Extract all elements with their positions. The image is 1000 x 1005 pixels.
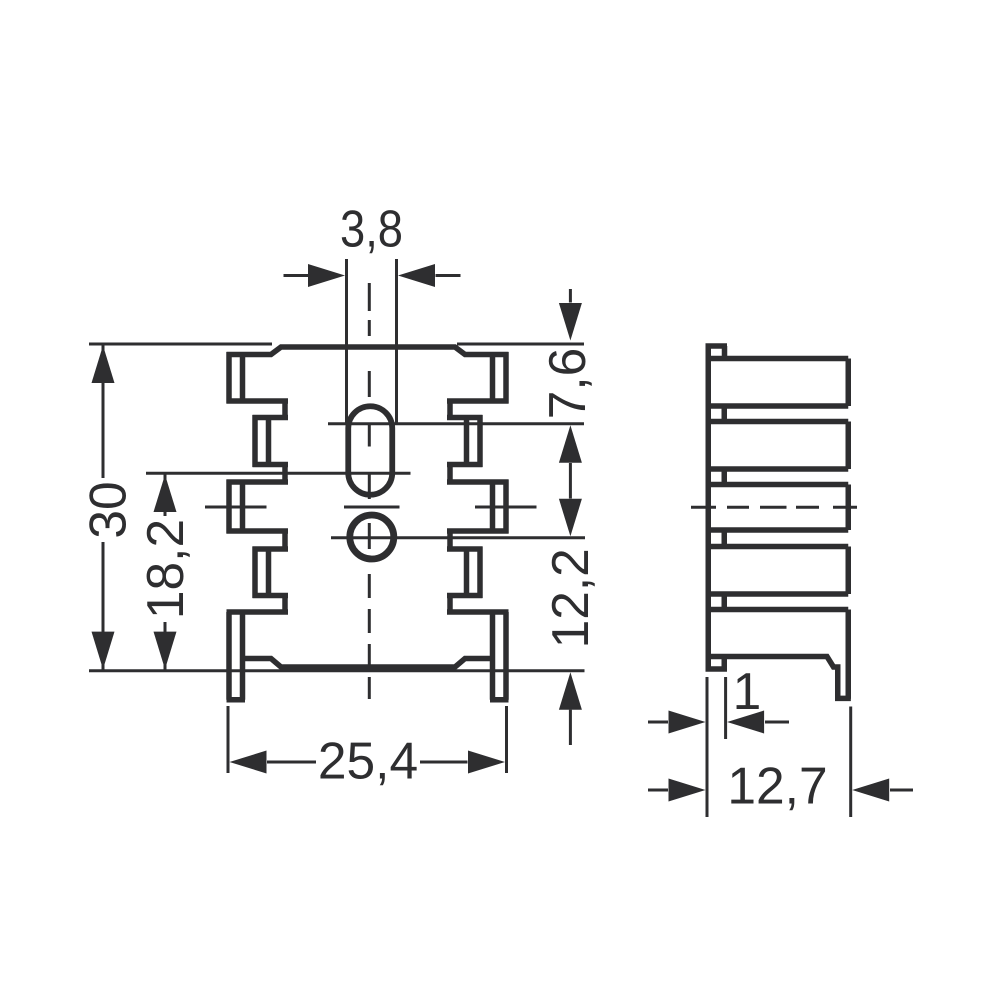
svg-text:12,7: 12,7 bbox=[727, 757, 827, 815]
svg-text:1: 1 bbox=[733, 662, 762, 720]
svg-text:3,8: 3,8 bbox=[340, 200, 403, 258]
svg-text:30: 30 bbox=[79, 481, 137, 538]
svg-text:25,4: 25,4 bbox=[318, 732, 418, 790]
svg-text:12,2: 12,2 bbox=[541, 548, 599, 648]
svg-text:18,2: 18,2 bbox=[136, 519, 194, 619]
svg-text:7,6: 7,6 bbox=[538, 348, 596, 420]
